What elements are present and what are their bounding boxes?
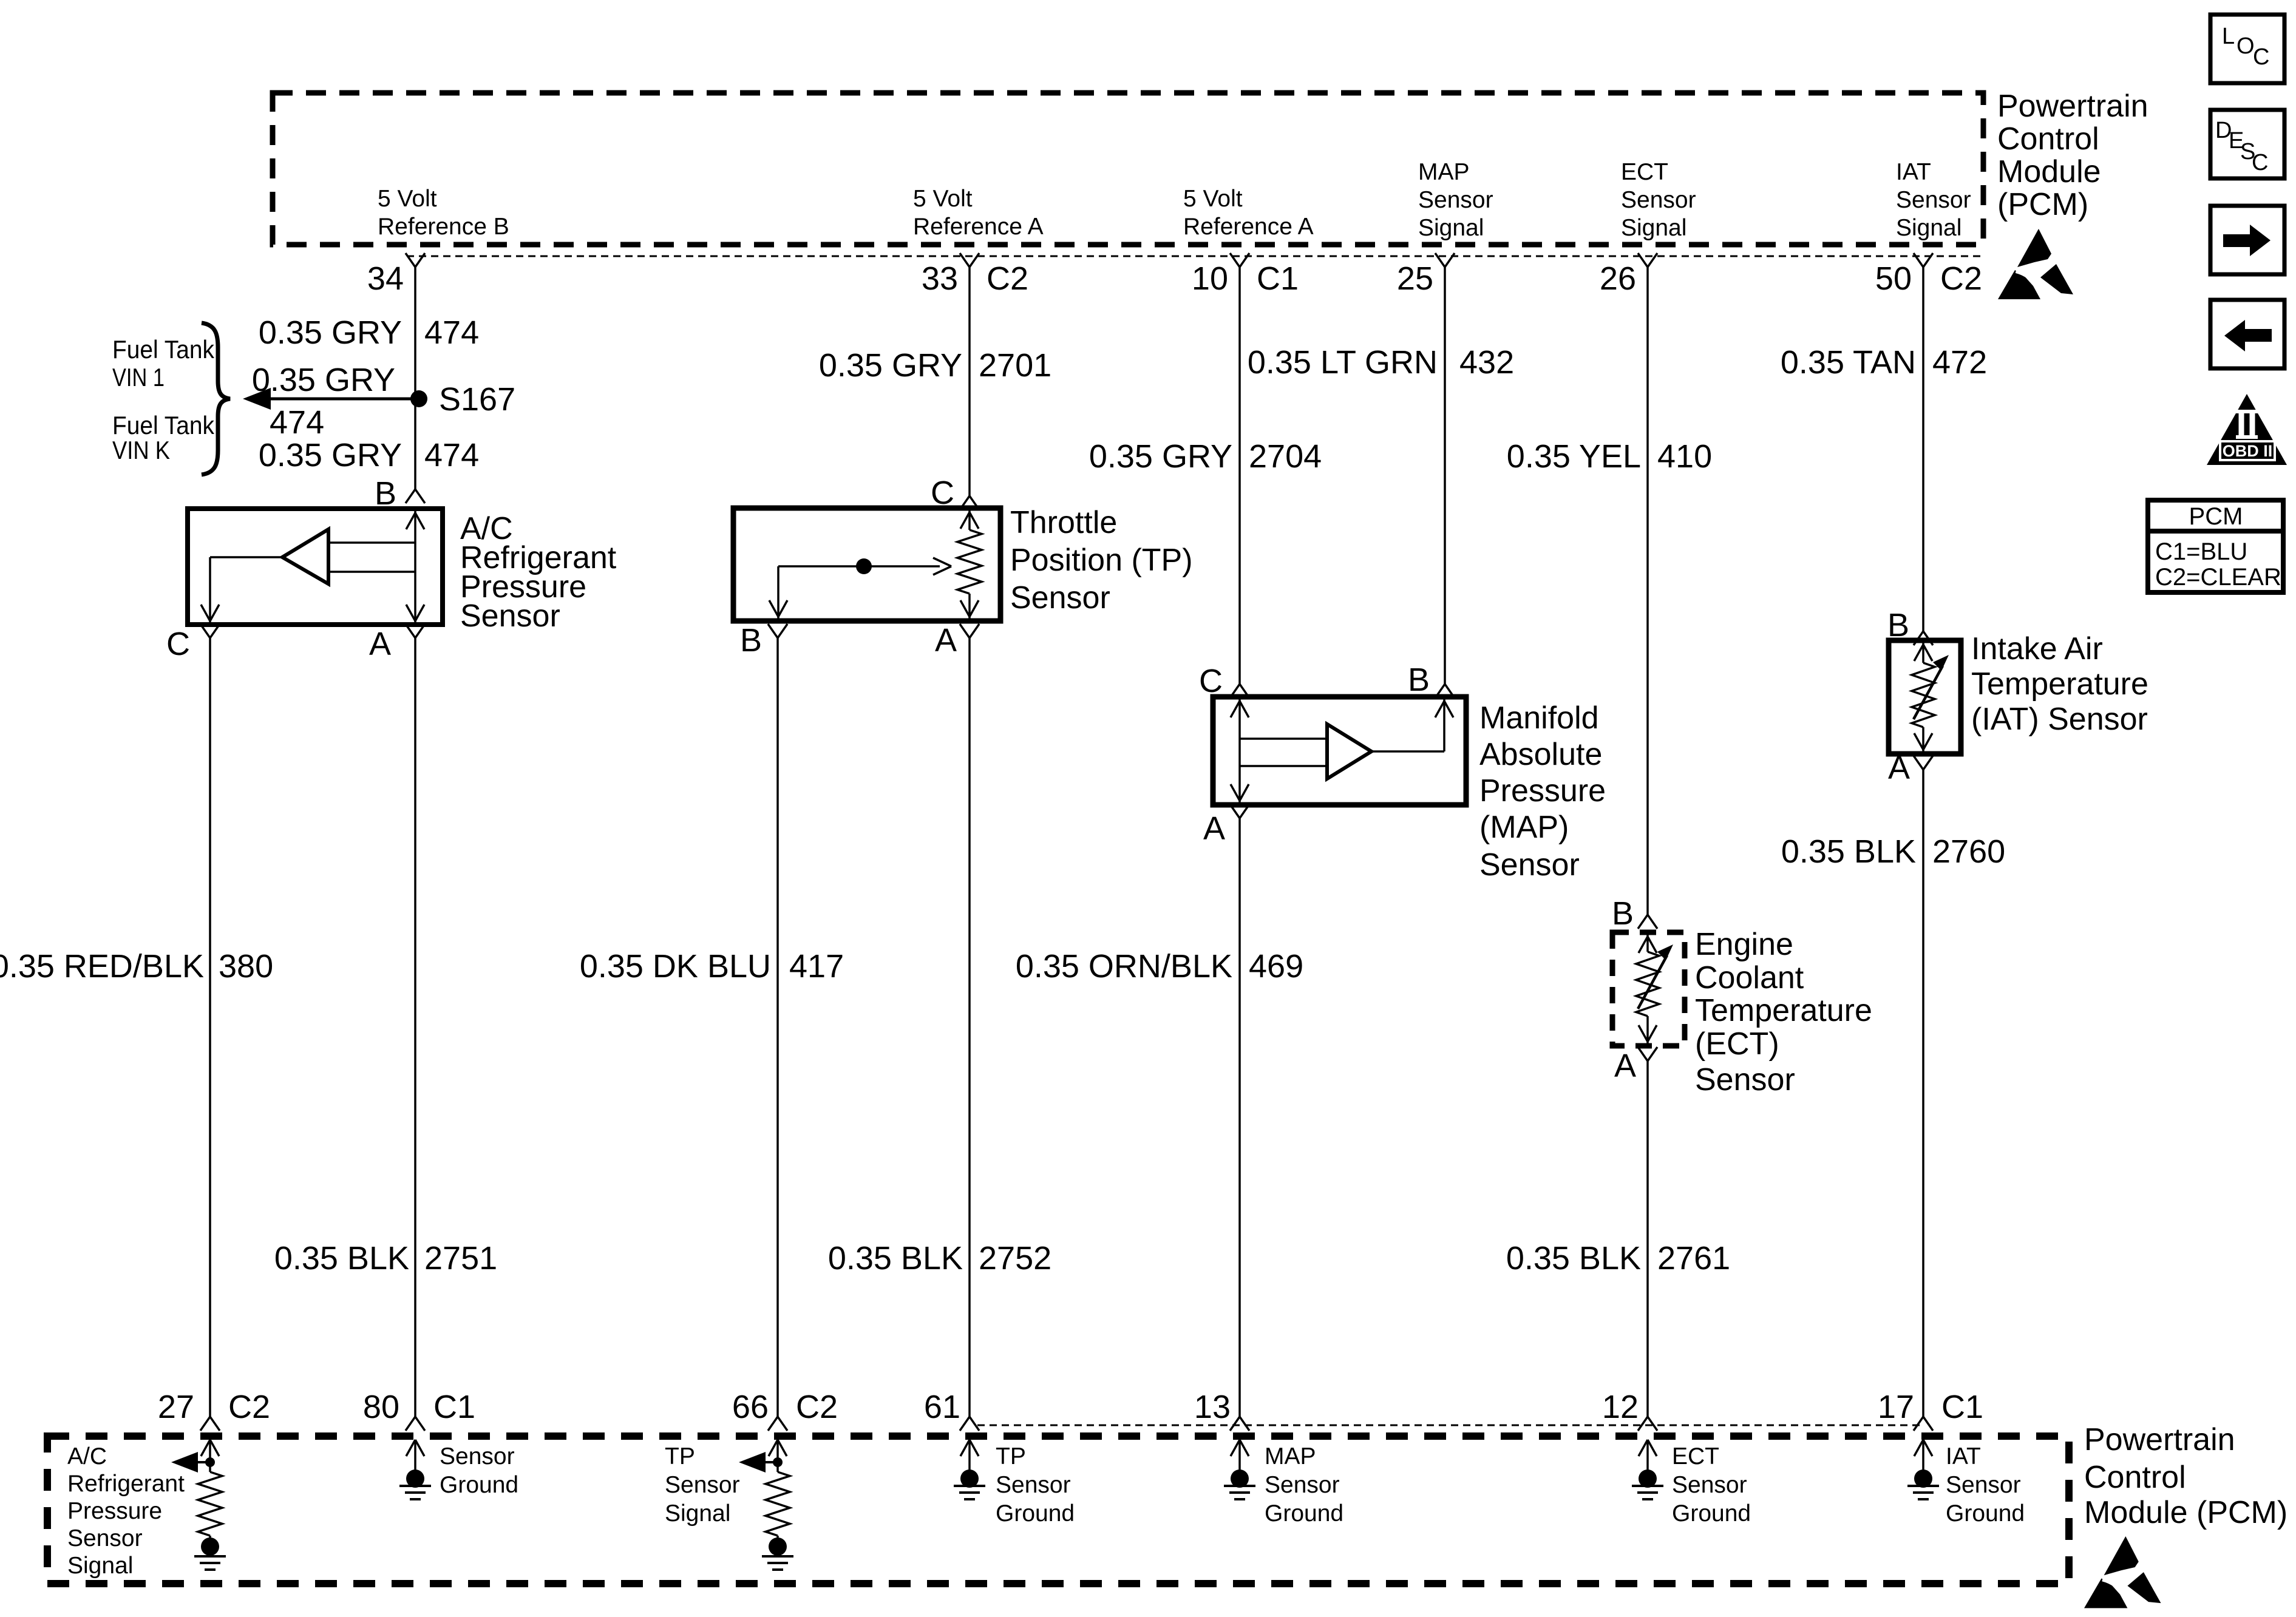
svg-text:417: 417 [789, 948, 844, 985]
svg-text:Ground: Ground [996, 1500, 1075, 1527]
svg-text:0.35 BLK: 0.35 BLK [1506, 1240, 1641, 1276]
svg-text:0.35 GRY: 0.35 GRY [1089, 438, 1232, 475]
svg-text:Signal: Signal [1896, 215, 1961, 241]
svg-text:0.35 BLK: 0.35 BLK [1781, 833, 1916, 870]
svg-text:Signal: Signal [1418, 215, 1484, 241]
svg-text:34: 34 [367, 260, 404, 297]
svg-text:B: B [1612, 895, 1634, 932]
svg-text:A: A [369, 626, 391, 662]
svg-text:66: 66 [732, 1389, 769, 1425]
svg-text:B: B [1408, 662, 1430, 698]
svg-text:0.35 ORN/BLK: 0.35 ORN/BLK [1016, 948, 1232, 985]
svg-text:0.35 GRY: 0.35 GRY [819, 347, 962, 384]
svg-text:380: 380 [219, 948, 273, 985]
svg-text:Reference B: Reference B [378, 214, 509, 240]
svg-text:C: C [2253, 44, 2269, 70]
svg-text:OBD II: OBD II [2223, 442, 2273, 460]
svg-text:0.35 GRY: 0.35 GRY [259, 437, 402, 473]
svg-text:A: A [1614, 1048, 1636, 1084]
svg-text:C: C [166, 626, 190, 662]
svg-text:Signal: Signal [665, 1500, 730, 1527]
svg-text:432: 432 [1459, 344, 1514, 381]
svg-text:Control: Control [2084, 1460, 2186, 1495]
svg-text:C1=BLU: C1=BLU [2155, 538, 2247, 565]
svg-text:472: 472 [1932, 344, 1987, 381]
svg-text:Reference A: Reference A [1183, 214, 1314, 240]
svg-text:Sensor: Sensor [1621, 187, 1696, 213]
svg-text:0.35 LT GRN: 0.35 LT GRN [1248, 344, 1438, 381]
svg-text:Pressure: Pressure [1479, 773, 1606, 808]
svg-text:Powertrain: Powertrain [2084, 1422, 2235, 1457]
svg-text:2751: 2751 [424, 1240, 497, 1276]
svg-text:Sensor: Sensor [440, 1443, 515, 1470]
svg-text:MAP: MAP [1265, 1443, 1316, 1470]
svg-text:27: 27 [158, 1389, 194, 1425]
svg-text:2701: 2701 [979, 347, 1051, 384]
svg-text:TP: TP [665, 1443, 695, 1470]
svg-text:0.35 RED/BLK: 0.35 RED/BLK [0, 948, 204, 985]
svg-text:469: 469 [1249, 948, 1303, 985]
svg-text:26: 26 [1600, 260, 1636, 297]
svg-text:33: 33 [922, 260, 958, 297]
svg-text:Absolute: Absolute [1479, 737, 1602, 772]
svg-text:5 Volt: 5 Volt [1183, 186, 1243, 212]
svg-text:0.35 GRY: 0.35 GRY [252, 362, 395, 398]
svg-text:2704: 2704 [1249, 438, 1322, 475]
svg-text:Sensor: Sensor [996, 1472, 1071, 1498]
svg-text:10: 10 [1192, 260, 1228, 297]
svg-text:C: C [1199, 663, 1223, 699]
svg-text:Refrigerant: Refrigerant [67, 1471, 185, 1497]
svg-text:C1: C1 [433, 1389, 475, 1425]
svg-text:Sensor: Sensor [1010, 580, 1110, 615]
svg-text:Throttle: Throttle [1010, 505, 1117, 540]
svg-text:B: B [740, 622, 762, 659]
svg-text:IAT: IAT [1946, 1443, 1981, 1470]
svg-text:5 Volt: 5 Volt [913, 186, 973, 212]
svg-text:Sensor: Sensor [1418, 187, 1493, 213]
svg-text:12: 12 [1602, 1389, 1639, 1425]
svg-text:Fuel Tank: Fuel Tank [112, 335, 215, 364]
svg-text:Sensor: Sensor [1946, 1472, 2021, 1498]
svg-text:410: 410 [1657, 438, 1712, 475]
svg-text:C: C [2252, 150, 2268, 175]
svg-text:Sensor: Sensor [1479, 847, 1580, 883]
svg-text:Ground: Ground [440, 1472, 518, 1498]
svg-text:VIN 1: VIN 1 [112, 363, 165, 392]
svg-text:Sensor: Sensor [1695, 1062, 1795, 1097]
svg-text:Signal: Signal [67, 1553, 133, 1579]
svg-text:474: 474 [424, 437, 479, 473]
svg-text:(PCM): (PCM) [1997, 187, 2088, 222]
svg-text:C1: C1 [1941, 1389, 1983, 1425]
svg-text:C2: C2 [796, 1389, 838, 1425]
svg-text:Sensor: Sensor [1672, 1472, 1747, 1498]
svg-text:Sensor: Sensor [1896, 187, 1971, 213]
svg-text:2760: 2760 [1932, 833, 2005, 870]
svg-text:Module (PCM): Module (PCM) [2084, 1495, 2288, 1530]
svg-text:C1: C1 [1257, 260, 1299, 297]
svg-text:2752: 2752 [979, 1240, 1051, 1276]
svg-text:Ground: Ground [1265, 1500, 1343, 1527]
svg-text:80: 80 [363, 1389, 399, 1425]
svg-text:(ECT): (ECT) [1695, 1026, 1779, 1062]
svg-text:0.35 DK BLU: 0.35 DK BLU [580, 948, 771, 985]
svg-text:Module: Module [1997, 154, 2101, 189]
svg-text:Fuel Tank: Fuel Tank [112, 411, 215, 439]
svg-text:0.35 GRY: 0.35 GRY [259, 314, 402, 351]
svg-text:Manifold: Manifold [1479, 700, 1599, 736]
svg-text:C2=CLEAR: C2=CLEAR [2155, 564, 2281, 591]
svg-text:Ground: Ground [1672, 1500, 1751, 1527]
svg-text:Control: Control [1997, 121, 2099, 157]
svg-text:0.35 TAN: 0.35 TAN [1781, 344, 1916, 381]
svg-text:Ground: Ground [1946, 1500, 2025, 1527]
svg-text:C2: C2 [1940, 260, 1982, 297]
svg-text:0.35 YEL: 0.35 YEL [1507, 438, 1641, 475]
svg-text:ECT: ECT [1621, 159, 1668, 185]
svg-text:25: 25 [1397, 260, 1433, 297]
svg-text:61: 61 [924, 1389, 960, 1425]
svg-text:Intake Air: Intake Air [1971, 631, 2103, 666]
svg-text:Powertrain: Powertrain [1997, 89, 2148, 124]
svg-text:A: A [1203, 810, 1225, 847]
svg-text:(MAP): (MAP) [1479, 810, 1569, 845]
svg-text:Reference A: Reference A [913, 214, 1044, 240]
svg-text:IAT: IAT [1896, 159, 1931, 185]
svg-text:Pressure: Pressure [67, 1498, 162, 1524]
svg-text:Sensor: Sensor [1265, 1472, 1340, 1498]
svg-text:Sensor: Sensor [67, 1525, 143, 1551]
svg-text:C2: C2 [987, 260, 1028, 297]
svg-text:Sensor: Sensor [460, 598, 560, 634]
svg-text:VIN K: VIN K [112, 436, 170, 464]
svg-text:ECT: ECT [1672, 1443, 1719, 1470]
svg-text:50: 50 [1875, 260, 1912, 297]
svg-text:Engine: Engine [1695, 927, 1793, 962]
svg-text:Position (TP): Position (TP) [1010, 543, 1193, 578]
svg-text:0.35 BLK: 0.35 BLK [828, 1240, 963, 1276]
svg-text:TP: TP [996, 1443, 1026, 1470]
svg-text:C2: C2 [228, 1389, 270, 1425]
svg-text:474: 474 [270, 404, 324, 441]
svg-text:2761: 2761 [1657, 1240, 1730, 1276]
svg-text:Sensor: Sensor [665, 1472, 740, 1498]
svg-text:Temperature: Temperature [1971, 666, 2148, 702]
svg-text:L: L [2222, 24, 2235, 49]
svg-text:17: 17 [1878, 1389, 1914, 1425]
svg-text:(IAT) Sensor: (IAT) Sensor [1971, 702, 2148, 737]
svg-text:474: 474 [424, 314, 479, 351]
svg-text:S167: S167 [439, 381, 515, 418]
svg-text:A: A [935, 622, 957, 659]
svg-text:MAP: MAP [1418, 159, 1470, 185]
svg-text:Coolant: Coolant [1695, 960, 1804, 995]
svg-text:13: 13 [1194, 1389, 1231, 1425]
svg-text:A: A [1888, 750, 1910, 786]
svg-text:Signal: Signal [1621, 215, 1686, 241]
svg-text:O: O [2237, 33, 2255, 59]
svg-text:PCM: PCM [2189, 503, 2243, 530]
svg-text:Temperature: Temperature [1695, 993, 1872, 1028]
svg-text:A/C: A/C [67, 1443, 107, 1470]
svg-text:5 Volt: 5 Volt [378, 186, 437, 212]
svg-text:0.35 BLK: 0.35 BLK [274, 1240, 409, 1276]
